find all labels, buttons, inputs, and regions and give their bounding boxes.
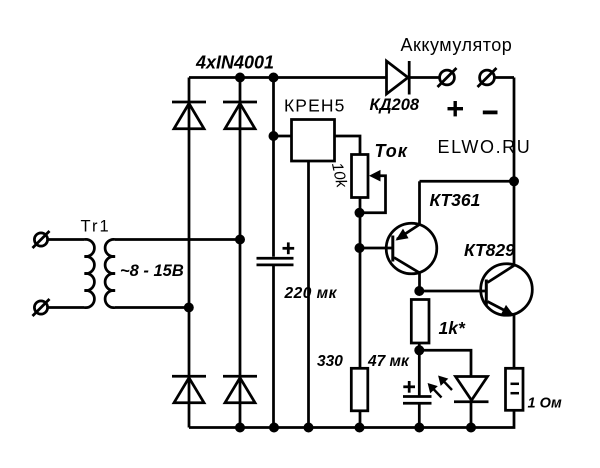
svg-text:220 мк: 220 мк <box>284 285 338 302</box>
svg-text:Аккумулятор: Аккумулятор <box>401 35 513 55</box>
svg-text:10k: 10k <box>328 161 350 190</box>
svg-text:КТ361: КТ361 <box>430 190 481 210</box>
svg-text:КТ829: КТ829 <box>464 240 515 260</box>
svg-text:330: 330 <box>317 353 343 370</box>
svg-text:1 Ом: 1 Ом <box>528 395 563 411</box>
svg-text:КРЕН5: КРЕН5 <box>284 96 345 116</box>
svg-text:Ток: Ток <box>375 141 408 161</box>
svg-text:47 мк: 47 мк <box>367 353 410 370</box>
svg-text:ELWO.RU: ELWO.RU <box>438 137 532 157</box>
svg-text:~8 - 15В: ~8 - 15В <box>120 262 184 280</box>
svg-text:1k*: 1k* <box>439 318 466 338</box>
svg-text:4xIN4001: 4xIN4001 <box>195 53 274 73</box>
svg-text:Tr1: Tr1 <box>81 218 111 236</box>
svg-text:КД208: КД208 <box>370 96 420 114</box>
